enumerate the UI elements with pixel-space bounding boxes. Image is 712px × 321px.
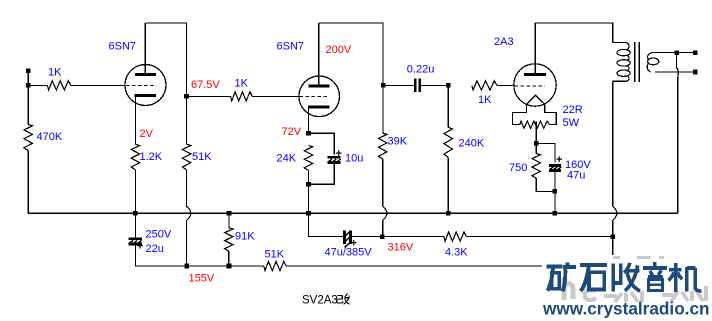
wire hop over secondary lead [676,68,678,77]
svg-text:+: + [137,241,143,253]
wire bus to C 22u [134,213,136,238]
svg-text:6SN7: 6SN7 [277,41,305,53]
wire 2A3 plate lead [534,23,536,75]
svg-text:47u/385V: 47u/385V [325,247,373,259]
svg-text:2A3: 2A3 [494,36,514,48]
resistor 22R 5W hum balance [520,121,550,128]
label 1K interstage [235,78,249,90]
wire 67.5V to R 1K [187,95,231,97]
label 47u [567,170,585,182]
svg-text:1K: 1K [478,94,492,106]
wire 155V line left [135,265,263,267]
svg-text:51K: 51K [265,248,285,260]
node 316V junction [380,234,385,239]
wire input to R 1K [28,84,47,86]
wire primary bottom down [612,81,614,206]
label 240K [459,137,485,149]
wire 39K to hop [382,159,384,206]
glyph gai (modified) [337,294,350,305]
wire C 47u to 316V node [352,236,383,238]
label 6SN7 V1 [109,41,137,53]
label 22u [146,243,164,255]
label 250V [146,228,172,240]
wire C 10u to bottom junction [309,163,335,185]
label 91K [235,231,255,243]
node output terminal A [674,50,679,55]
wire hop to 316V node [382,220,384,236]
label 0.22u [407,63,435,75]
svg-text:1.2K: 1.2K [140,151,163,163]
wire junction to bus [308,184,310,213]
wire filament right leg [545,104,557,124]
resistor 24K [304,146,312,171]
svg-text:316V: 316V [388,241,414,253]
label 10u [345,153,363,165]
resistor 91K [225,228,233,251]
node hum tap junction [534,141,539,146]
cathode V2 [308,105,330,108]
resistor 750 [532,154,540,179]
resistor 470K [24,125,32,151]
node V2 plate node [381,83,386,88]
wire 316V node to 4.3K [382,236,444,238]
resistor 1K (2A3 grid stopper) [472,81,497,90]
transformer secondary winding [647,53,659,72]
wire 2A3 plate rail [535,23,613,43]
svg-text:91K: 91K [235,231,255,243]
node bus junction 2A3 cathode [553,211,558,216]
svg-text:200V: 200V [326,44,352,56]
wire R 1K to V1 grid [71,84,126,86]
wire input junction down [27,85,29,124]
wire 155V line right [286,265,613,267]
svg-text:SV2A3: SV2A3 [302,295,338,307]
node input terminal [26,68,31,73]
wire secondary top lead [652,52,695,54]
wire junction to bus [554,191,556,213]
node input junction [26,83,31,88]
wire hum tap down [535,122,537,144]
svg-text:+: + [556,154,562,166]
svg-text:4.3K: 4.3K [445,246,468,258]
wire 1.2K to bus [134,170,136,214]
label 316V [388,241,414,253]
node 155V junction 51K [185,264,190,269]
wire R 1K to V2 grid [252,95,299,97]
resistor 1K (V2 grid) [231,92,253,101]
resistor 240K [444,127,452,157]
label 22R [563,104,583,116]
label 2V [140,128,154,140]
capacitor 0.22u [415,79,420,92]
svg-text:5W: 5W [563,117,580,129]
capacitor 47u/385V [344,231,357,250]
watermark crystalradio [542,255,712,321]
wire terminal A to ground [677,76,679,213]
svg-text:67.5V: 67.5V [191,79,220,91]
label 2A3 [494,36,514,48]
svg-text:1K: 1K [235,78,249,90]
wire terminal A down [675,53,677,68]
label 750 [509,162,527,174]
capacitor 10u [328,148,342,163]
capacitor 47u/160V [549,154,562,170]
label 1K 2A3 [478,94,492,106]
node bus junction V2 cathode [306,211,311,216]
svg-text:250V: 250V [146,228,172,240]
tube 2A3 power triode [514,64,556,106]
svg-text:72V: 72V [282,126,302,138]
label 200V [326,44,352,56]
cathode V1 [135,94,157,97]
wire B+ to 155V line [612,220,614,266]
wire node down to 240K [447,85,449,127]
resistor 51K (B+ dropper) [264,261,286,270]
resistor 1.2K [131,144,139,170]
wire hop B+ over bus [613,206,617,220]
resistor 51K (V1 plate load) [182,144,190,170]
label 67.5V [191,79,220,91]
wire cathode to C 10u [309,133,335,154]
transformer primary winding [613,43,631,82]
svg-text:51K: 51K [192,151,212,163]
label 39K [388,135,408,147]
svg-text:240K: 240K [459,137,485,149]
wire bus drop to 316V line [309,213,344,236]
svg-text:6SN7: 6SN7 [109,41,137,53]
wire V1 plate lead [144,23,146,75]
resistor 1K (input grid stopper) [47,81,70,90]
label 47u/385V [325,247,373,259]
node 67.5V plate node [184,94,189,99]
wire V2 cathode lead [308,107,310,134]
wire tap to 750 [535,143,537,153]
wire V2 plate lead [318,23,320,86]
node bus junction 240K [446,211,451,216]
svg-text:www.crystalradio.cn: www.crystalradio.cn [542,298,710,318]
wire V1 plate rail [145,23,186,94]
wire V2 plate node down [382,85,384,133]
svg-text:2V: 2V [140,128,154,140]
wire hop 39K over bus [383,206,387,220]
label SV2A3 title [302,295,338,307]
wire 750 to bottom junction [536,178,555,191]
resistor 39K (V2 plate load) [379,133,387,159]
tube V2 6SN7 triode [299,76,340,117]
wire 470K to ground bus [27,151,29,214]
svg-text:750: 750 [509,162,527,174]
label 1.2K [140,151,163,163]
node V2 cathode bottom junction [306,182,311,187]
svg-text:39K: 39K [388,135,408,147]
label 24K [277,153,297,165]
label 51K horizontal [265,248,285,260]
resistor 4.3K [444,232,467,241]
svg-text:470K: 470K [37,131,63,143]
wire input stub [27,71,29,86]
label 155V [189,272,215,284]
node output terminal B [693,50,698,55]
label 4.3K [445,246,468,258]
wire R 1K to 2A3 grid [497,84,514,86]
wire secondary bottom lead [655,71,695,73]
wire V2 plate rail [319,23,383,85]
label 160V [565,159,591,171]
node bus junction 91K [227,211,232,216]
node output terminal C [693,70,698,75]
svg-text:0.22u: 0.22u [407,63,435,75]
svg-text:47u: 47u [567,170,585,182]
wire bus to 91K [228,213,230,228]
node 155V junction 91K [227,264,232,269]
wire C 22u to 155V line [135,244,186,266]
label 470K [37,131,63,143]
svg-text:10u: 10u [345,153,363,165]
wire 24K to bottom junction [308,171,310,185]
wire ground bus [28,212,678,214]
svg-text:22u: 22u [146,243,164,255]
wire plate node to C 0.22u [383,84,414,86]
svg-text:155V: 155V [189,272,215,284]
wire tap to C 47u [537,143,555,162]
node bus junction 1.2K/22u [133,211,138,216]
svg-text:1K: 1K [48,67,62,79]
capacitor 22u/250V [129,239,143,253]
label 1K input [48,67,62,79]
label 6SN7 V2 [277,41,305,53]
label 5W [563,117,580,129]
wire V1 cathode lead [134,96,136,145]
node grid node 2A3 [446,83,451,88]
wire hop 51K over bus [187,206,191,220]
wire C 0.22u to node [421,84,448,86]
wire hop to 155V line [186,220,188,266]
wire C 47u to bottom junction [554,170,556,191]
filament 2A3 [527,95,545,104]
tube V1 6SN7 triode [125,65,166,106]
node B+ junction 316V line [610,234,615,239]
node V2 cathode junction [306,131,311,136]
wire 240K to bus [447,157,449,213]
wire 4.3K to B+ rail [466,236,612,238]
label 51K vertical [192,151,212,163]
label 72V [282,126,302,138]
svg-text:24K: 24K [277,153,297,165]
wire 67.5V node down [186,96,188,144]
node 2A3 cathode bottom junction [553,189,558,194]
wire 91K to 155V line [228,251,230,266]
transformer core [635,42,640,82]
svg-text:22R: 22R [563,104,583,116]
wire filament left leg [513,105,527,125]
wire 51K to hop [186,170,188,207]
